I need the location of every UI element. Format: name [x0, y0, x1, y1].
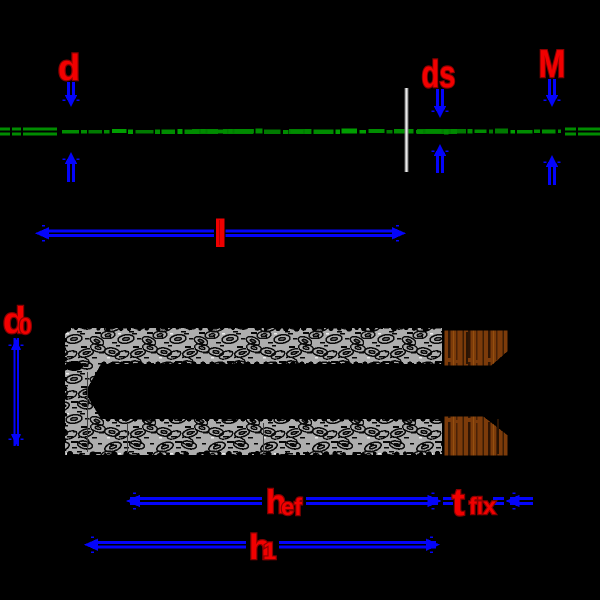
svg-text:1: 1 — [263, 538, 276, 565]
svg-text:d: d — [58, 47, 80, 88]
svg-text:0: 0 — [19, 313, 32, 339]
svg-text:ds: ds — [422, 54, 456, 96]
svg-text:M: M — [539, 43, 566, 86]
svg-text:ef: ef — [281, 494, 303, 521]
svg-text:t: t — [452, 482, 465, 524]
svg-text:fix: fix — [469, 493, 496, 519]
